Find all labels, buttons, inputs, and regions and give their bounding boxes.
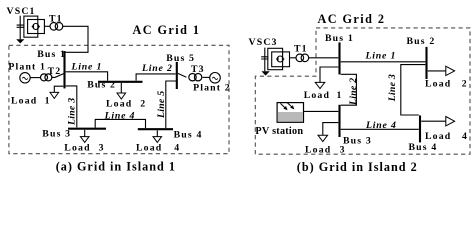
load Load 4 (island 2) [421,120,446,122]
load Load 4 (island 1) [156,130,158,136]
svg-text:Bus 2: Bus 2 [407,36,436,47]
svg-text:(a) Grid in Island 1: (a) Grid in Island 1 [56,160,176,174]
load Load 1 (island 1) [54,86,63,92]
svg-text:Line 2: Line 2 [141,63,173,74]
wire Line 3 (island 1) [66,86,77,128]
svg-text:Line 4: Line 4 [104,110,136,121]
wire Line 1 (island 1) [66,72,108,81]
svg-text:AC Grid 2: AC Grid 2 [318,12,386,26]
svg-text:Load: Load [64,143,90,154]
svg-text:Load: Load [136,143,162,154]
wire Line 4 (island 2) [341,128,419,130]
load Load 2 (island 2) [428,70,446,72]
node Bus 1 (island 2) [338,42,340,74]
switch T2 to Bus 1 [52,74,64,78]
svg-text:Load: Load [305,144,331,155]
svg-text:1: 1 [337,90,343,101]
converter VSC3 [261,48,296,72]
svg-text:4: 4 [174,143,180,154]
svg-text:Line 1: Line 1 [365,50,397,61]
svg-text:Line 3: Line 3 [67,98,78,126]
wire Line 2 (island 1) [136,74,176,81]
svg-text:Load: Load [425,79,451,90]
node Bus 2 (island 2) [425,47,427,79]
transformer T1 (island 1) [50,23,63,31]
ground (VSC3) [262,71,270,75]
svg-text:3: 3 [340,144,346,155]
svg-text:Line 3: Line 3 [387,74,398,102]
svg-text:VSC1: VSC1 [7,6,36,17]
node Bus 3 (island 1) [68,128,106,130]
node Bus 5 (island 1) [176,62,178,89]
node Bus 1 (island 1) [63,51,65,88]
svg-text:AC Grid 1: AC Grid 1 [133,23,201,37]
svg-text:Bus 1: Bus 1 [325,33,354,44]
PV station box [277,103,303,123]
svg-text:1: 1 [45,96,51,107]
converter VSC1 [17,16,51,40]
load Load 2 (island 1) [120,83,122,93]
svg-text:T1: T1 [294,44,308,55]
svg-text:Bus 4: Bus 4 [409,142,438,153]
svg-text:Bus 2: Bus 2 [87,80,116,91]
svg-text:2: 2 [140,98,146,109]
svg-text:2: 2 [462,79,468,90]
svg-text:VSC3: VSC3 [249,37,278,48]
load Load 3 (island 2) [323,123,339,136]
load Load 3 (island 1) [84,130,86,137]
wire Line 2 (island 2) [341,74,357,105]
wire T1 to Bus 1 [62,26,88,52]
svg-text:Load: Load [425,131,451,142]
transformer T1 (island 2) [296,54,309,62]
svg-text:3: 3 [99,143,105,154]
wire Line 4 (island 1) [95,119,145,128]
wire T1 to Bus 1 (island 2) [308,57,338,59]
svg-text:Line 2: Line 2 [348,78,359,106]
svg-text:Line 5: Line 5 [156,91,167,119]
svg-text:Bus 3: Bus 3 [42,128,71,139]
ground (VSC1) [16,39,24,43]
svg-text:Load: Load [106,98,132,109]
node Bus 4 (island 1) [138,128,173,130]
transformer T2 [41,74,52,81]
svg-text:Line 1: Line 1 [71,62,103,73]
svg-text:Bus 3: Bus 3 [343,136,372,147]
wire Line 5 (island 1) [166,81,176,128]
svg-text:Bus 5: Bus 5 [166,53,195,64]
svg-text:PV station: PV station [255,126,303,137]
wire Line 3 (island 2) [401,65,426,115]
wire Line 1 (island 2) [341,61,426,63]
node Bus 4 (island 2) [419,115,421,142]
svg-text:4: 4 [462,131,468,142]
svg-text:Bus 4: Bus 4 [174,130,203,141]
svg-text:Plant 1: Plant 1 [8,62,46,73]
svg-text:Load: Load [304,90,330,101]
load Load 1 (island 2) [320,67,338,82]
node Bus 3 (island 2) [338,105,340,137]
generator Plant 1 [20,73,41,83]
generator Plant 2 [203,76,210,78]
svg-text:Load: Load [11,96,37,107]
AC Grid 2 dashed boundary (notched polygon) [255,28,470,154]
node Bus 2 (island 1) [98,81,143,83]
svg-text:(b) Grid in Island 2: (b) Grid in Island 2 [297,160,418,174]
svg-text:Bus 1: Bus 1 [37,49,66,60]
svg-text:Plant 2: Plant 2 [193,83,231,94]
AC Grid 1 dashed boundary [9,45,229,153]
wire PV to Bus 3 [304,110,339,112]
svg-text:Line 4: Line 4 [365,120,397,131]
